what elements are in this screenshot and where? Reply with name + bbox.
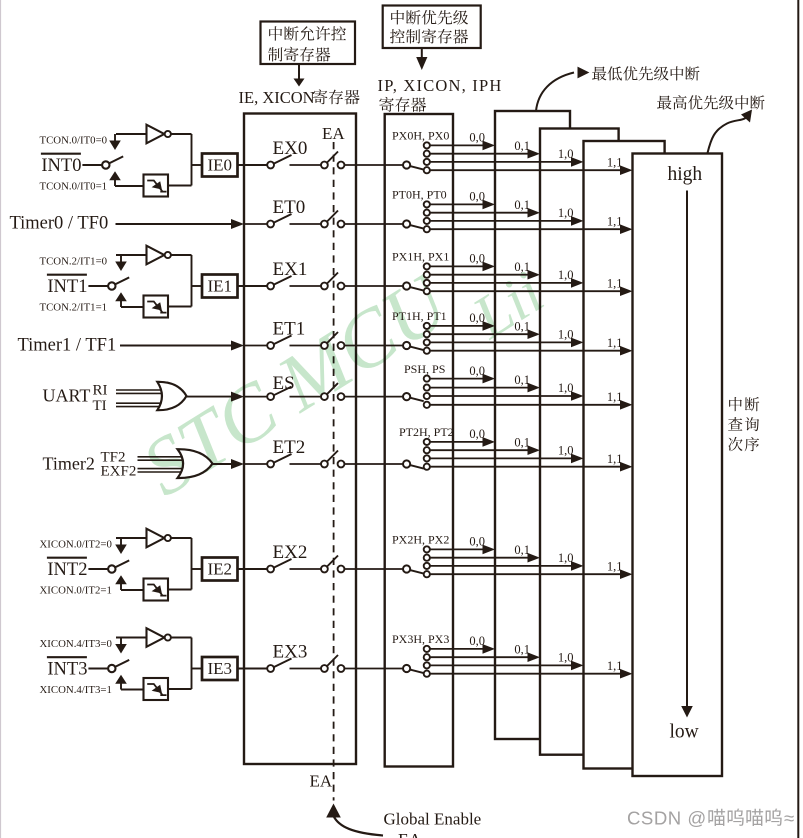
priority line 1,1 [430, 286, 633, 296]
priority line 0,1 [430, 652, 540, 662]
priority contact 0,1 [424, 654, 430, 660]
priority contact 1,0 [424, 455, 430, 461]
priority line 1,0 [430, 216, 584, 226]
annotation A arrow [294, 64, 305, 87]
EA switch left contact [321, 566, 328, 573]
wire ES to EA switch [290, 396, 322, 398]
EA switch right contact [338, 283, 345, 290]
wire EX3 to EA switch [290, 668, 322, 670]
arrow to switch lower throw [115, 292, 143, 307]
svg-text:0,0: 0,0 [469, 364, 485, 378]
enable switch ET0 blade [274, 214, 292, 223]
priority selector pivot [403, 393, 410, 400]
enable switch EX3 blade [274, 659, 292, 668]
inverter INT1 [147, 246, 171, 265]
EA switch right contact [338, 566, 345, 573]
switch pivot INT3 [108, 665, 115, 672]
enable switch EX0 pivot [267, 162, 274, 169]
priority contact 1,1 [424, 671, 430, 677]
priority line 0,0 [430, 141, 495, 151]
priority box 1 (0,0) [495, 111, 570, 739]
priority line 1,0 [430, 454, 584, 464]
flag box IE2 [202, 558, 238, 581]
priority line 0,0 [430, 321, 495, 331]
priority line 1,0 [430, 338, 584, 348]
priority line 0,0 [430, 437, 495, 447]
svg-text:1,0: 1,0 [558, 551, 574, 565]
enable switch ES pivot [267, 393, 274, 400]
priority selector blade [410, 398, 424, 402]
svg-text:IE0: IE0 [208, 156, 233, 175]
priority line 1,1 [430, 462, 633, 472]
priority contact 0,0 [424, 263, 430, 269]
priority line 1,0 [430, 391, 584, 401]
enable switch ET2 pivot [267, 461, 274, 468]
priority selector pivot [403, 665, 410, 672]
priority contact 0,0 [424, 323, 430, 329]
svg-text:TCON.2/IT1=1: TCON.2/IT1=1 [40, 302, 108, 314]
svg-text:EXF2: EXF2 [101, 464, 137, 480]
priority line 0,0 [430, 200, 495, 210]
priority contact 1,0 [424, 339, 430, 345]
wire INT1 to switch [88, 285, 108, 287]
inverter INT0 [147, 125, 171, 144]
wire edge detector output [168, 589, 192, 591]
priority box 4 high/low [633, 154, 723, 777]
arrow to switch lower throw [109, 171, 143, 186]
svg-text:1,1: 1,1 [607, 390, 623, 404]
label INT0 with overline [41, 154, 82, 176]
svg-text:1,0: 1,0 [558, 268, 574, 282]
svg-text:Timer0 / TF0: Timer0 / TF0 [10, 214, 109, 234]
EA switch left contact [321, 221, 328, 228]
flag box IE1 [202, 275, 238, 298]
wire into ES switch [244, 396, 267, 398]
svg-text:1,1: 1,1 [607, 336, 623, 350]
priority selector pivot [403, 161, 410, 168]
svg-text:PT1H, PT1: PT1H, PT1 [392, 309, 447, 323]
wire to IE0 box [192, 164, 203, 166]
global enable arrow [326, 804, 383, 836]
wire inverter output [171, 538, 192, 590]
priority contact 1,0 [424, 218, 430, 224]
wire EA switch to IP selector [344, 345, 403, 347]
svg-text:≈: ≈ [784, 808, 794, 829]
svg-text:EA: EA [310, 772, 333, 791]
svg-text:PX2H, PX2: PX2H, PX2 [392, 533, 449, 547]
EA switch right contact [338, 221, 345, 228]
annotation box A (interrupt enable control register) [261, 22, 356, 65]
wire EA switch to IP selector [344, 668, 403, 670]
svg-text:Timer2: Timer2 [43, 454, 95, 474]
svg-text:PSH, PS: PSH, PS [404, 362, 445, 376]
svg-text:1,0: 1,0 [558, 444, 574, 458]
wire EA switch to IP selector [344, 463, 403, 465]
priority selector pivot [403, 282, 410, 289]
or-gate UART [157, 382, 186, 410]
priority line 0,0 [430, 262, 495, 272]
or-gate Timer2 [178, 449, 213, 478]
svg-text:XICON.4/IT3=0: XICON.4/IT3=0 [40, 638, 112, 650]
priority line 0,1 [430, 445, 540, 455]
annotation B text [390, 10, 468, 44]
wire EX2 to EA switch [290, 568, 322, 570]
priority contact 0,0 [424, 142, 430, 148]
arrow to switch upper throw [115, 644, 127, 654]
svg-text:1,0: 1,0 [558, 651, 574, 665]
svg-text:Timer1 / TF1: Timer1 / TF1 [18, 336, 117, 356]
wire EX0 to EA switch [290, 164, 322, 166]
wire EXF2 double line [138, 469, 184, 472]
priority contact 1,1 [424, 348, 430, 354]
svg-text:XICON.0/IT2=1: XICON.0/IT2=1 [40, 585, 112, 597]
switch blade INT3 [115, 660, 129, 667]
svg-text:1,1: 1,1 [607, 155, 623, 169]
svg-text:0,1: 0,1 [514, 198, 530, 212]
priority line 1,0 [430, 157, 584, 167]
svg-text:0,1: 0,1 [514, 260, 530, 274]
arrow to switch lower throw [115, 675, 143, 690]
switch blade INT2 [115, 560, 129, 567]
priority contact 1,0 [424, 159, 430, 165]
priority selector blade [410, 570, 424, 574]
arrow to switch lower throw [115, 575, 143, 590]
wire Timer2 gate to IE box [213, 459, 245, 469]
wire EX1 to EA switch [290, 285, 322, 287]
svg-text:1,0: 1,0 [558, 328, 574, 342]
wire Timer0 to IE box [116, 219, 245, 229]
priority line 1,1 [430, 224, 633, 234]
svg-text:XICON.0/IT2=0: XICON.0/IT2=0 [40, 539, 112, 551]
wire IE3 to enable switch [238, 668, 268, 670]
wire inverter output [171, 255, 192, 307]
label interrupt query order [728, 397, 759, 451]
priority selector pivot [403, 565, 410, 572]
priority selector blade [410, 225, 424, 229]
wire trigger-0 to inverter [115, 134, 147, 141]
flag box IE3 [202, 657, 238, 680]
svg-text:Global Enable: Global Enable [384, 810, 482, 829]
svg-text:1,1: 1,1 [607, 559, 623, 573]
EA switch blade [327, 556, 338, 568]
priority contact 0,0 [424, 439, 430, 445]
priority selector blade [410, 166, 424, 170]
register box IP/XICON/IPH [385, 114, 453, 767]
svg-text:low: low [670, 722, 699, 743]
priority line 1,1 [430, 669, 633, 679]
priority selector pivot [403, 460, 410, 467]
EA switch left contact [321, 342, 328, 349]
EA switch blade [327, 655, 338, 667]
svg-text:0,1: 0,1 [514, 435, 530, 449]
priority contact 0,1 [424, 447, 430, 453]
svg-text:PX1H, PX1: PX1H, PX1 [392, 250, 449, 264]
watermark CSDN [627, 808, 794, 829]
priority contact 1,0 [424, 280, 430, 286]
EA switch blade [327, 152, 338, 164]
EA switch left contact [321, 461, 328, 468]
wire ET1 to EA switch [290, 345, 322, 347]
svg-text:0,1: 0,1 [514, 319, 530, 333]
svg-text:0,1: 0,1 [514, 543, 530, 557]
priority contact 0,1 [424, 555, 430, 561]
svg-text:PT2H, PT2: PT2H, PT2 [399, 425, 454, 439]
svg-text:INT3: INT3 [47, 660, 87, 680]
svg-text:IE3: IE3 [208, 659, 233, 678]
wire to IE2 box [192, 568, 203, 570]
svg-text:INT1: INT1 [47, 277, 87, 297]
svg-text:IE1: IE1 [208, 277, 233, 296]
label INT3 with overline [47, 657, 88, 679]
priority box 3 (1,0) [584, 141, 665, 769]
priority contact 1,1 [424, 226, 430, 232]
enable switch EX3 pivot [267, 665, 274, 672]
svg-text:PX0H, PX0: PX0H, PX0 [392, 129, 449, 143]
wire RI double line [116, 390, 163, 393]
svg-text:1,0: 1,0 [558, 381, 574, 395]
wire IE0 to enable switch [238, 164, 268, 166]
EA switch blade [327, 211, 338, 223]
wire edge detector output [168, 688, 192, 690]
wire Timer1 to IE box [120, 341, 244, 351]
svg-text:0,1: 0,1 [514, 139, 530, 153]
priority line 0,0 [430, 644, 495, 654]
priority selector blade [410, 287, 424, 291]
priority contact 0,0 [424, 646, 430, 652]
page right border [797, 0, 799, 838]
label lowest priority interrupt [536, 66, 700, 111]
priority contact 0,1 [424, 151, 430, 157]
label highest priority interrupt [657, 95, 764, 153]
EA switch blade [327, 383, 338, 395]
label INT2 with overline [47, 558, 88, 580]
wire to IE3 box [192, 668, 203, 670]
wire edge detector output [168, 306, 192, 308]
svg-text:TCON.2/IT1=0: TCON.2/IT1=0 [40, 256, 108, 268]
enable switch EX1 blade [274, 276, 292, 285]
wire trigger-0 to inverter [116, 538, 147, 545]
wire into ET1 switch [244, 345, 267, 347]
priority line 1,0 [430, 661, 584, 671]
svg-text:0,0: 0,0 [469, 311, 485, 325]
enable switch EX0 blade [274, 155, 292, 164]
wire INT2 to switch [88, 568, 108, 570]
enable switch EX2 blade [274, 559, 292, 568]
label IE, XICON register [239, 88, 360, 107]
svg-text:XICON.4/IT3=1: XICON.4/IT3=1 [40, 684, 112, 696]
wire into ET2 switch [244, 463, 267, 465]
arrow to switch upper throw [115, 545, 127, 555]
svg-text:high: high [668, 164, 703, 185]
svg-text:UART: UART [43, 386, 91, 406]
label INT1 with overline [47, 275, 88, 297]
EA switch blade [327, 332, 338, 344]
wire EA switch to IP selector [344, 568, 403, 570]
edge detector INT3 [144, 678, 169, 700]
EA switch blade [327, 273, 338, 285]
priority selector blade [410, 465, 424, 469]
EA switch left contact [321, 393, 328, 400]
priority line 0,1 [430, 329, 540, 339]
flag box IE0 [202, 154, 238, 177]
priority line 1,1 [430, 569, 633, 579]
svg-text:INT2: INT2 [47, 560, 87, 580]
svg-text:0,0: 0,0 [469, 535, 485, 549]
wire TF2 double line [138, 457, 184, 460]
svg-text:IE2: IE2 [208, 560, 233, 579]
priority line 0,0 [430, 545, 495, 555]
wire INT0 to switch [82, 164, 102, 166]
svg-text:TI: TI [93, 398, 107, 414]
arrow to switch upper throw [115, 262, 127, 272]
svg-text:TCON.0/IT0=0: TCON.0/IT0=0 [40, 135, 108, 147]
EA switch blade [327, 451, 338, 463]
switch pivot INT1 [108, 282, 115, 289]
wire to IE1 box [192, 285, 203, 287]
priority selector pivot [403, 220, 410, 227]
edge detector INT2 [144, 579, 169, 601]
priority contact 0,1 [424, 210, 430, 216]
enable switch EX2 pivot [267, 566, 274, 573]
priority contact 1,0 [424, 563, 430, 569]
svg-text:0,0: 0,0 [469, 634, 485, 648]
wire TI double line [116, 403, 163, 406]
svg-text:1,1: 1,1 [607, 214, 623, 228]
switch blade INT0 [109, 156, 123, 163]
svg-text:PT0H, PT0: PT0H, PT0 [392, 188, 447, 202]
enable switch ET1 blade [274, 336, 292, 345]
wire IE1 to enable switch [238, 285, 268, 287]
register box IE/XICON [244, 114, 356, 765]
page left border [0, 0, 2, 838]
EA global-enable dashed line [333, 142, 335, 801]
inverter INT3 [147, 628, 171, 647]
wire inverter output [171, 134, 192, 186]
priority line 1,1 [430, 400, 633, 410]
priority line 0,1 [430, 553, 540, 563]
wire EA switch to IP selector [344, 164, 403, 166]
priority selector pivot [403, 342, 410, 349]
arrow to switch upper throw [109, 141, 121, 151]
svg-text:RI: RI [93, 383, 108, 399]
wire trigger-0 to inverter [116, 255, 147, 262]
svg-text:0,0: 0,0 [469, 252, 485, 266]
wire EA switch to IP selector [344, 285, 403, 287]
svg-text:0,0: 0,0 [469, 427, 485, 441]
enable switch ET0 pivot [267, 221, 274, 228]
svg-text:EA: EA [322, 124, 345, 143]
priority order arrow [681, 191, 693, 718]
inverter INT2 [147, 529, 171, 548]
svg-text:0,0: 0,0 [469, 190, 485, 204]
priority contact 1,1 [424, 402, 430, 408]
priority line 1,0 [430, 561, 584, 571]
priority line 0,1 [430, 383, 540, 393]
priority box 2 (0,1) [540, 129, 619, 755]
wire UART gate to IE box [187, 392, 245, 402]
svg-text:1,1: 1,1 [607, 276, 623, 290]
wire ET0 to EA switch [290, 223, 322, 225]
priority contact 0,0 [424, 546, 430, 552]
annotation B arrow [416, 49, 427, 71]
wire ET2 to EA switch [290, 463, 322, 465]
priority contact 0,1 [424, 272, 430, 278]
priority contact 0,0 [424, 201, 430, 207]
priority contact 0,1 [424, 331, 430, 337]
wire INT3 to switch [88, 668, 108, 670]
switch pivot INT2 [108, 565, 115, 572]
label IP, XICON, IPH register [378, 76, 503, 112]
wire trigger-0 to inverter [116, 638, 147, 645]
svg-text:1,1: 1,1 [607, 452, 623, 466]
wire EA switch to IP selector [344, 223, 403, 225]
EA switch right contact [338, 461, 345, 468]
svg-text:INT0: INT0 [41, 156, 81, 176]
priority contact 1,1 [424, 464, 430, 470]
EA switch right contact [338, 393, 345, 400]
EA switch left contact [321, 283, 328, 290]
priority contact 1,1 [424, 288, 430, 294]
annotation box B (interrupt priority control register) [383, 6, 481, 49]
priority line 0,1 [430, 149, 540, 159]
svg-text:0,1: 0,1 [514, 642, 530, 656]
EA switch left contact [321, 665, 328, 672]
wire inverter output [171, 638, 192, 690]
svg-text:0,0: 0,0 [469, 131, 485, 145]
EA switch right contact [338, 342, 345, 349]
annotation A text [268, 26, 346, 61]
priority line 0,1 [430, 270, 540, 280]
priority line 1,1 [430, 165, 633, 175]
svg-text:CSDN @: CSDN @ [627, 808, 707, 829]
EA switch right contact [338, 162, 345, 169]
priority contact 1,0 [424, 393, 430, 399]
priority selector blade [410, 670, 424, 674]
enable switch ET1 pivot [267, 342, 274, 349]
svg-text:PX3H, PX3: PX3H, PX3 [392, 632, 449, 646]
wire EA switch to IP selector [344, 396, 403, 398]
svg-text:IE, XICON: IE, XICON [239, 88, 315, 107]
enable switch ET2 blade [274, 454, 292, 463]
priority contact 0,1 [424, 385, 430, 391]
switch pivot INT0 [102, 161, 109, 168]
EA switch right contact [338, 665, 345, 672]
svg-text:1,0: 1,0 [558, 147, 574, 161]
svg-text:0,1: 0,1 [514, 373, 530, 387]
switch blade INT1 [115, 277, 129, 284]
priority contact 1,0 [424, 662, 430, 668]
priority selector blade [410, 347, 424, 351]
svg-text:1,0: 1,0 [558, 206, 574, 220]
priority line 0,1 [430, 208, 540, 218]
priority line 1,1 [430, 346, 633, 356]
svg-text:TCON.0/IT0=1: TCON.0/IT0=1 [40, 181, 108, 193]
svg-text:1,1: 1,1 [607, 659, 623, 673]
wire edge detector output [168, 185, 192, 187]
wire into ET0 switch [244, 223, 267, 225]
priority contact 0,0 [424, 376, 430, 382]
priority line 0,0 [430, 374, 495, 384]
enable switch ES blade [274, 387, 292, 396]
priority contact 1,1 [424, 167, 430, 173]
wire IE2 to enable switch [238, 568, 268, 570]
EA switch left contact [321, 162, 328, 169]
priority contact 1,1 [424, 571, 430, 577]
svg-text:IP, XICON, IPH: IP, XICON, IPH [378, 76, 503, 95]
enable switch EX1 pivot [267, 283, 274, 290]
edge detector INT0 [144, 175, 169, 197]
svg-text:EA: EA [398, 830, 422, 838]
